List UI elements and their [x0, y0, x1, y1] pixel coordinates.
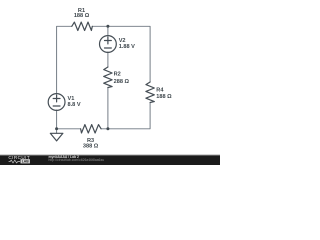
- voltage source V1: [48, 94, 65, 111]
- wire R2 to bottom node: [107, 88, 109, 129]
- wire bottom-left: R3 to ground node: [57, 128, 81, 130]
- resistor R2: [104, 67, 112, 88]
- svg-text:R4: R4: [156, 87, 164, 93]
- svg-text:388 Ω: 388 Ω: [83, 144, 99, 150]
- svg-text:188 Ω: 188 Ω: [74, 13, 90, 19]
- wire right-bottom: R4 down to bottom rail, across to mid node: [108, 103, 150, 129]
- wire V2 to R2: [107, 52, 109, 67]
- CircuitLab logo: LAB box: [21, 159, 30, 163]
- wire V1 bottom lead: [56, 110, 58, 129]
- svg-text:http://circuitlab.com/c626z46t: http://circuitlab.com/c626z46t8aa6zu: [49, 158, 105, 162]
- wire top-left: left rail up and across to R1: [57, 26, 72, 94]
- footer watermark bar: [0, 155, 220, 165]
- wire top-right: R1 to right rail, down to R4: [92, 26, 150, 82]
- voltage source V2: [100, 36, 117, 53]
- node ground junction: [55, 127, 58, 130]
- resistor R4: [146, 82, 154, 103]
- node bottom mid junction: [106, 127, 109, 130]
- svg-text:188 Ω: 188 Ω: [156, 94, 172, 100]
- resistor R1: [72, 22, 93, 30]
- wire ground stub: [56, 129, 58, 134]
- svg-text:8.8 V: 8.8 V: [68, 102, 81, 108]
- svg-text:1.88 V: 1.88 V: [119, 44, 135, 50]
- svg-text:288 Ω: 288 Ω: [114, 79, 130, 85]
- svg-text:LAB: LAB: [22, 160, 30, 164]
- ground: [50, 133, 63, 141]
- svg-text:R2: R2: [114, 72, 121, 78]
- CircuitLab logo: resistor zigzag: [9, 160, 21, 163]
- resistor R3: [81, 125, 102, 133]
- wire mid-bottom: mid node to R3: [101, 128, 108, 130]
- node top junction: [106, 25, 109, 28]
- wire V2 top lead: [107, 26, 109, 36]
